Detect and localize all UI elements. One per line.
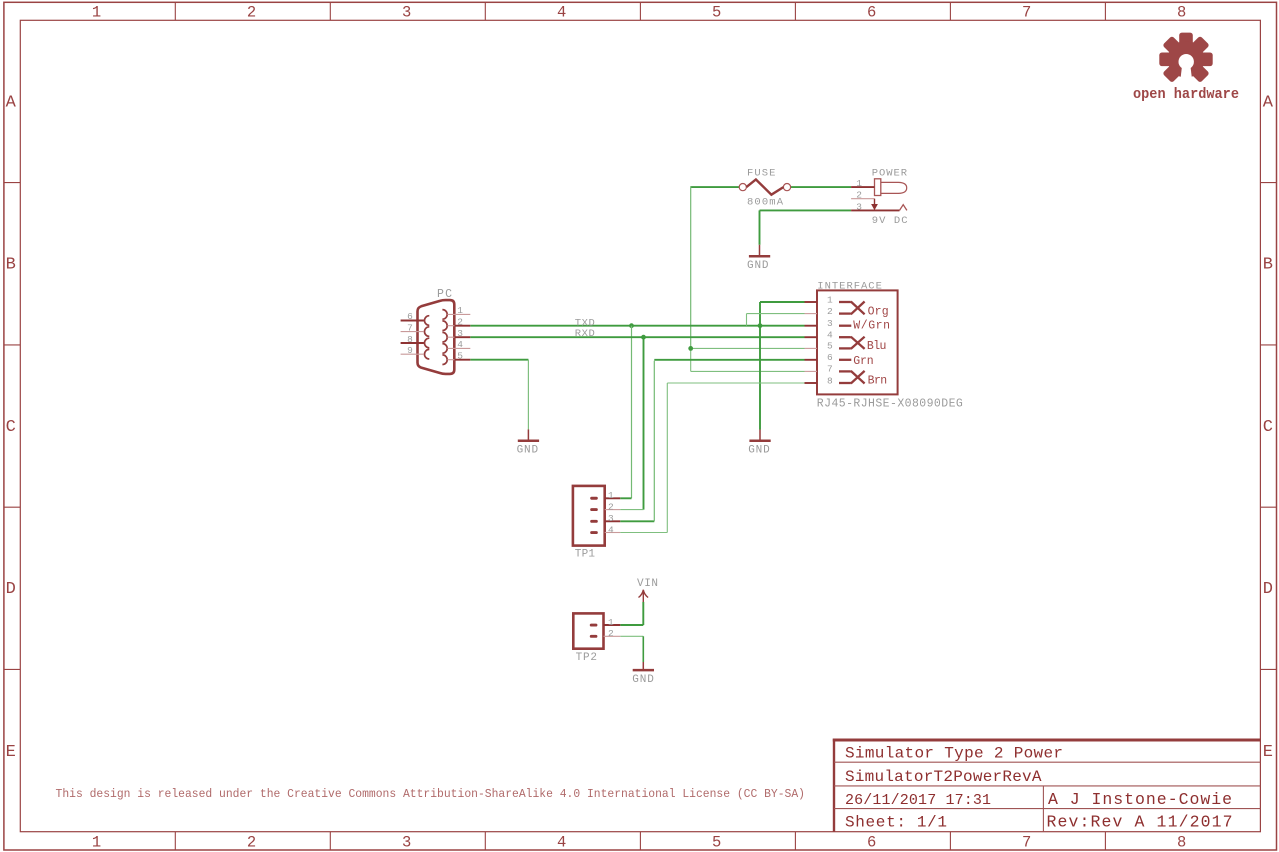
svg-text:800mA: 800mA [747, 197, 784, 209]
wire vertical to pin7 level [690, 348, 692, 371]
wire vertical fuse feed down [690, 186, 692, 348]
wire TP1 pin4 horizontal [620, 532, 667, 534]
interface pin 3 bar [839, 325, 851, 327]
svg-text:TP1: TP1 [575, 549, 596, 561]
svg-text:C: C [6, 418, 16, 437]
power pin 2 switch arrow [874, 199, 876, 205]
ground symbol GND1 below fuse [747, 245, 770, 272]
svg-text:3: 3 [608, 513, 614, 524]
PC pin 5 stub [447, 359, 455, 361]
svg-text:7: 7 [407, 322, 413, 333]
title block top edge [833, 739, 1261, 742]
power pin 3 spring peak [900, 205, 907, 211]
wire TXD branch down to TP1 pin1 [631, 326, 633, 499]
interface pin numbers [827, 294, 833, 386]
title block row separators [834, 762, 1260, 808]
svg-text:5: 5 [457, 351, 463, 362]
svg-text:2: 2 [827, 306, 833, 317]
TP1 pin 4 stub [605, 532, 621, 534]
svg-text:D: D [6, 580, 16, 599]
svg-text:GND: GND [748, 445, 770, 457]
PC pin 3 arc [442, 332, 447, 342]
PC pin 3 stub [447, 336, 455, 338]
svg-text:8: 8 [1177, 3, 1186, 21]
svg-text:9: 9 [407, 345, 413, 356]
svg-text:8: 8 [827, 375, 833, 386]
PC pin 9 stub [401, 353, 424, 355]
PC pin 2 stub [447, 325, 455, 327]
PC pin 2 arc [442, 321, 447, 331]
interface pair 1-2 bars and cross [839, 302, 865, 315]
wire to interface pin7 [691, 370, 805, 372]
row dividers left strip [4, 183, 20, 670]
interface connector RJ45 box [817, 290, 898, 394]
svg-text:A: A [1263, 93, 1274, 112]
svg-text:This design is released under: This design is released under the Creati… [56, 787, 806, 801]
svg-text:open hardware: open hardware [1133, 86, 1239, 103]
svg-text:5: 5 [712, 3, 721, 21]
ground symbol GND2 below PC [517, 429, 540, 456]
svg-text:3: 3 [457, 328, 463, 339]
svg-text:2: 2 [247, 3, 256, 21]
TP2 pin 1 stub [604, 624, 621, 626]
power connector J1 barrel jack [875, 179, 907, 196]
wire TXD main [470, 325, 804, 327]
TP1 pin 3 stub [605, 520, 621, 522]
interface pin 5 stub [805, 347, 818, 349]
interface pin 8 stub [805, 382, 818, 384]
svg-text:E: E [1263, 743, 1273, 762]
TP1 pin nubs [590, 497, 598, 534]
svg-text:GND: GND [747, 260, 769, 272]
svg-text:Brn: Brn [868, 374, 888, 387]
TP1 pin 2 stub [605, 509, 621, 511]
wire TP1 pin4 vertical [666, 383, 668, 533]
svg-text:6: 6 [867, 834, 876, 852]
svg-text:1: 1 [608, 617, 614, 628]
wire TP1 pin1 horizontal [620, 497, 631, 499]
wire vertical interface pin1 to gnd [759, 302, 761, 430]
svg-text:Simulator Type 2 Power: Simulator Type 2 Power [845, 744, 1063, 762]
svg-text:4: 4 [457, 339, 463, 350]
wire TP1 pin3 vertical [653, 361, 655, 522]
wire POWER3 to gnd corner [760, 209, 852, 211]
TP2 pin nubs [590, 624, 598, 638]
row dividers right strip [1260, 183, 1276, 670]
row labels right [1263, 93, 1274, 762]
svg-text:B: B [1263, 256, 1273, 275]
svg-text:26/11/2017 17:31: 26/11/2017 17:31 [845, 792, 991, 809]
wire to interface pin8 [667, 382, 804, 384]
wire TP2 pin2 horizontal [620, 635, 643, 637]
svg-text:Rev:Rev A 11/2017: Rev:Rev A 11/2017 [1047, 813, 1233, 832]
svg-text:2: 2 [608, 628, 614, 639]
test point TP1 box [573, 486, 605, 546]
svg-text:8: 8 [407, 334, 413, 345]
interface pin 2 stub [805, 313, 818, 315]
svg-text:3: 3 [402, 3, 411, 21]
open hardware logo gear [1159, 33, 1212, 84]
TP2 pin 2 stub [604, 635, 621, 637]
TP2 pin numbers [608, 617, 614, 639]
test point TP2 box [573, 613, 603, 648]
PC pin 6 arc [424, 316, 429, 326]
wire vertical POWER3 gnd [759, 210, 761, 244]
PC pin 7 arc [424, 327, 429, 337]
svg-text:Sheet: 1/1: Sheet: 1/1 [845, 814, 947, 832]
wire TP1 pin2 horizontal [620, 509, 643, 511]
PC pin 6 stub [401, 320, 424, 322]
svg-text:7: 7 [1022, 3, 1031, 21]
row labels left [6, 93, 17, 762]
svg-text:3: 3 [856, 201, 862, 212]
svg-text:RXD: RXD [575, 328, 595, 340]
svg-text:GND: GND [632, 674, 654, 686]
svg-text:2: 2 [608, 502, 614, 513]
svg-text:C: C [1263, 418, 1273, 437]
fuse F1 [739, 180, 790, 195]
svg-text:W/Grn: W/Grn [853, 320, 890, 333]
svg-text:D: D [1263, 580, 1273, 599]
svg-text:1: 1 [856, 178, 862, 189]
power pin 2 stub [851, 198, 874, 200]
TP1 pin numbers [608, 490, 614, 535]
supply symbol VIN [637, 578, 658, 602]
junction RXD TP1 [641, 335, 646, 340]
svg-text:4: 4 [557, 834, 566, 852]
PC pin 5 arc [442, 355, 447, 365]
PC pin 8 stub [401, 342, 424, 344]
power pin numbers [856, 178, 862, 212]
wire interface pin2 jog vertical [746, 314, 748, 326]
svg-text:Grn: Grn [853, 355, 873, 368]
svg-text:7: 7 [1022, 834, 1031, 852]
column dividers bottom strip [175, 832, 1105, 850]
wire RXD main [470, 336, 804, 338]
wire PC pin5 horizontal [470, 359, 528, 361]
wire RXD branch down to TP1 pin2 [643, 337, 645, 509]
svg-text:1: 1 [457, 305, 463, 316]
svg-text:4: 4 [608, 524, 614, 535]
TP1 pin 1 stub [605, 497, 621, 499]
svg-text:7: 7 [827, 364, 833, 375]
svg-text:SimulatorT2PowerRevA: SimulatorT2PowerRevA [845, 768, 1042, 786]
junction TXD interface [758, 323, 763, 328]
svg-text:2: 2 [856, 190, 862, 201]
svg-text:RJ45-RJHSE-X08090DEG: RJ45-RJHSE-X08090DEG [817, 398, 963, 411]
svg-text:TP2: TP2 [576, 652, 597, 664]
svg-text:5: 5 [827, 341, 833, 352]
interface pair 7-8 bars and cross [839, 371, 865, 384]
wire TP2 pin2 vertical to gnd [642, 636, 644, 662]
svg-text:PC: PC [437, 288, 452, 301]
PC left pin numbers [407, 311, 413, 356]
svg-text:1: 1 [827, 294, 833, 305]
wire TP2 pin1 vertical to VIN [642, 602, 644, 625]
svg-text:E: E [6, 743, 16, 762]
wire to interface pin6 [654, 359, 804, 361]
column labels top [92, 3, 1187, 21]
svg-text:GND: GND [517, 445, 539, 457]
svg-text:POWER: POWER [872, 167, 908, 179]
svg-text:2: 2 [457, 317, 463, 328]
svg-text:VIN: VIN [637, 578, 658, 590]
svg-text:1: 1 [92, 3, 101, 21]
interface pin 4 stub [805, 336, 818, 338]
wire TP2 pin1 horizontal [620, 624, 643, 626]
wire POWER1 to fuse right [791, 186, 852, 188]
svg-text:3: 3 [402, 834, 411, 852]
svg-text:3: 3 [827, 318, 833, 329]
svg-text:6: 6 [827, 352, 833, 363]
svg-text:Org: Org [868, 305, 889, 318]
svg-text:2: 2 [247, 834, 256, 852]
svg-text:1: 1 [608, 490, 614, 501]
interface pin 6 stub [805, 359, 818, 361]
power pin 1 stub [851, 186, 874, 188]
wire fuse left to corner [691, 186, 740, 188]
wire TP1 pin3 horizontal [620, 520, 654, 522]
junction fuse feed [688, 346, 693, 351]
column labels bottom [92, 834, 1187, 852]
ground symbol GND4 below TP2 [632, 662, 654, 686]
svg-text:4: 4 [827, 330, 833, 341]
PC pin 8 arc [424, 338, 429, 348]
junction TXD TP1 [629, 323, 634, 328]
wire interface pin1 horizontal [760, 301, 805, 303]
svg-text:A J Instone-Cowie: A J Instone-Cowie [1048, 790, 1232, 809]
svg-text:Blu: Blu [867, 340, 887, 353]
PC pin 7 stub [401, 331, 424, 333]
svg-text:INTERFACE: INTERFACE [817, 281, 882, 293]
wire PC pin5 vertical to gnd [527, 360, 529, 430]
interface pin 3 stub [805, 325, 818, 327]
title block column divider [1042, 786, 1044, 832]
PC pin 1 arc [442, 310, 447, 320]
interface pin 1 stub [805, 301, 818, 303]
title block left edge [833, 739, 835, 832]
column dividers top strip [175, 2, 1105, 20]
svg-text:1: 1 [92, 834, 101, 852]
interface pair 4-5 bars and cross [839, 337, 865, 349]
svg-text:FUSE: FUSE [747, 168, 775, 180]
svg-text:6: 6 [867, 3, 876, 21]
svg-text:B: B [6, 256, 16, 275]
PC pin 9 arc [424, 349, 429, 359]
PC pin 1 stub [447, 313, 470, 315]
svg-text:A: A [6, 93, 17, 112]
PC pin 4 arc [442, 344, 447, 354]
PC right pin numbers [457, 305, 463, 361]
power pin 3 stub [851, 209, 899, 211]
interface pin 6 bar [839, 359, 851, 361]
wire interface pin2 jog horizontal [747, 313, 805, 315]
svg-text:9V DC: 9V DC [872, 215, 908, 227]
wire to interface pin5 [691, 347, 805, 349]
ground symbol GND3 below interface [748, 430, 771, 457]
svg-text:8: 8 [1177, 834, 1186, 852]
svg-text:4: 4 [557, 3, 566, 21]
PC pin 4 stub [447, 347, 470, 349]
interface pin 7 stub [805, 370, 818, 372]
svg-text:6: 6 [407, 311, 413, 322]
svg-text:5: 5 [712, 834, 721, 852]
PC connector X1 DB9 body [418, 300, 455, 374]
